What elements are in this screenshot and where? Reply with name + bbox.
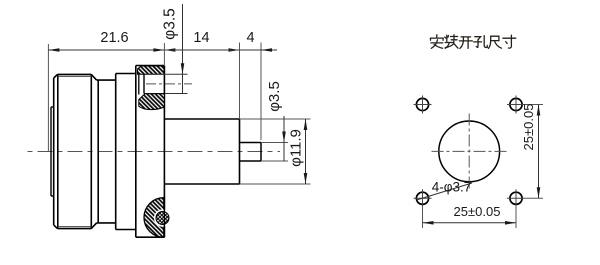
svg-text:25±0.05: 25±0.05 bbox=[521, 104, 536, 151]
svg-text:4-φ3.7: 4-φ3.7 bbox=[432, 180, 472, 195]
svg-text:4: 4 bbox=[246, 30, 254, 46]
flange (sectioned) outline bbox=[136, 66, 165, 238]
mounting hole (section) top line bbox=[144, 73, 188, 75]
char chi bbox=[488, 36, 501, 48]
dimension 4 bbox=[239, 43, 241, 120]
panel cutout circle bbox=[439, 121, 500, 182]
gasket half-disc bbox=[144, 198, 164, 238]
body: threaded coupling cylinder bbox=[54, 74, 92, 228]
svg-text:φ3.5: φ3.5 bbox=[266, 81, 283, 112]
flange face: mounting hole bottom-left bbox=[416, 192, 428, 204]
wire: front protrusion bbox=[51, 107, 54, 196]
flange lower hatched wedge bbox=[139, 94, 165, 110]
gasket white ring bbox=[154, 209, 171, 226]
mounting hole inner wall bbox=[143, 74, 145, 93]
cutout horizontal centerline bbox=[432, 150, 508, 152]
char cun bbox=[503, 35, 516, 48]
flange face: mounting hole top-left bbox=[416, 98, 428, 110]
cutout vertical centerline bbox=[468, 114, 470, 191]
center pin bbox=[240, 143, 262, 162]
o-ring checker circle bbox=[156, 212, 169, 225]
dimension phi3.5 top (mounting hole) bbox=[163, 43, 165, 66]
flange face: mounting hole bottom-right bbox=[510, 192, 522, 204]
extension line left (21.6) bbox=[47, 44, 49, 152]
dimension 21.6 bbox=[48, 49, 164, 51]
char zhuang bbox=[445, 35, 458, 49]
svg-text:φ3.5: φ3.5 bbox=[162, 8, 179, 40]
svg-text:φ11.9: φ11.9 bbox=[288, 129, 305, 167]
svg-text:25±0.05: 25±0.05 bbox=[454, 204, 501, 219]
mounting hole centerline bbox=[146, 83, 192, 85]
dimension phi11.9 bbox=[305, 119, 307, 184]
flange right edge over gasket bbox=[163, 195, 165, 237]
body: groove and step section bbox=[91, 74, 136, 230]
char kai bbox=[459, 37, 472, 49]
svg-text:14: 14 bbox=[193, 30, 209, 46]
centerline (main axis) bbox=[28, 151, 281, 153]
rear barrel bbox=[164, 119, 239, 184]
label 4-phi3.7 with leader bbox=[417, 183, 473, 200]
char an bbox=[431, 35, 444, 49]
title: an zhuang kai kong chi cun (hand drawn strokes) bbox=[431, 35, 516, 49]
dimension 14 bbox=[164, 48, 175, 52]
dimension 25 bottom bbox=[422, 206, 424, 228]
svg-text:21.6: 21.6 bbox=[100, 30, 128, 46]
thread minor diameter lines bbox=[58, 75, 92, 77]
dimension 25 right bbox=[525, 104, 543, 106]
flange face: mounting hole top-right bbox=[510, 98, 522, 110]
flange top hatched band bbox=[138, 66, 165, 74]
flange wall line bbox=[138, 74, 140, 94]
char kong bbox=[474, 36, 488, 48]
dimension phi3.5 right (pin) bbox=[283, 116, 285, 161]
pin diameter extension lines bbox=[261, 142, 288, 144]
mounting hole (section) bottom line bbox=[144, 93, 188, 95]
barrel diameter extension lines bbox=[240, 118, 311, 120]
